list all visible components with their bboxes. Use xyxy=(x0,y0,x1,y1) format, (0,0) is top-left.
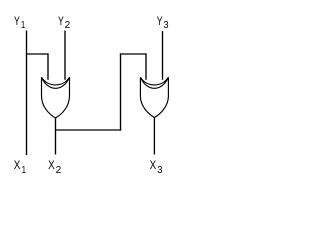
Gray-code to binary converter schematic: two XOR gates pointing down xyxy=(0,0,184,185)
svg-text:Y: Y xyxy=(58,14,64,28)
svg-text:X: X xyxy=(14,158,21,172)
wire Y1 to X1 vertical xyxy=(26,31,28,156)
svg-text:3: 3 xyxy=(157,164,162,176)
svg-text:Y: Y xyxy=(157,14,163,28)
wire Y3 to gate U2 right input xyxy=(162,31,164,80)
svg-text:1: 1 xyxy=(21,19,26,31)
wire riser vertical xyxy=(120,53,122,130)
xor gate U2 body xyxy=(140,77,168,117)
svg-text:Y: Y xyxy=(14,14,20,28)
wire horizontal top run to gate U2 left input xyxy=(120,53,147,55)
xor gate U1 body xyxy=(42,77,70,118)
svg-text:X: X xyxy=(150,158,157,172)
xor gate U1 extra input curve xyxy=(42,77,70,85)
wire gate U2 left input drop xyxy=(145,53,147,79)
svg-text:3: 3 xyxy=(163,19,168,31)
wire Y2 to gate U1 right input xyxy=(64,31,66,80)
wire branch from Y1 line to gate U1 left input xyxy=(26,53,49,55)
wire gate U1 left input drop xyxy=(47,53,49,79)
xor gate U2 extra input curve xyxy=(140,77,168,85)
svg-text:X: X xyxy=(48,158,55,172)
wire gate U1 output to X2 xyxy=(55,118,57,155)
wire horizontal from U1 output node to riser xyxy=(55,129,121,131)
svg-text:2: 2 xyxy=(56,164,62,176)
svg-text:2: 2 xyxy=(65,19,71,31)
svg-text:1: 1 xyxy=(22,164,27,176)
wire gate U2 output to X3 xyxy=(153,117,155,155)
